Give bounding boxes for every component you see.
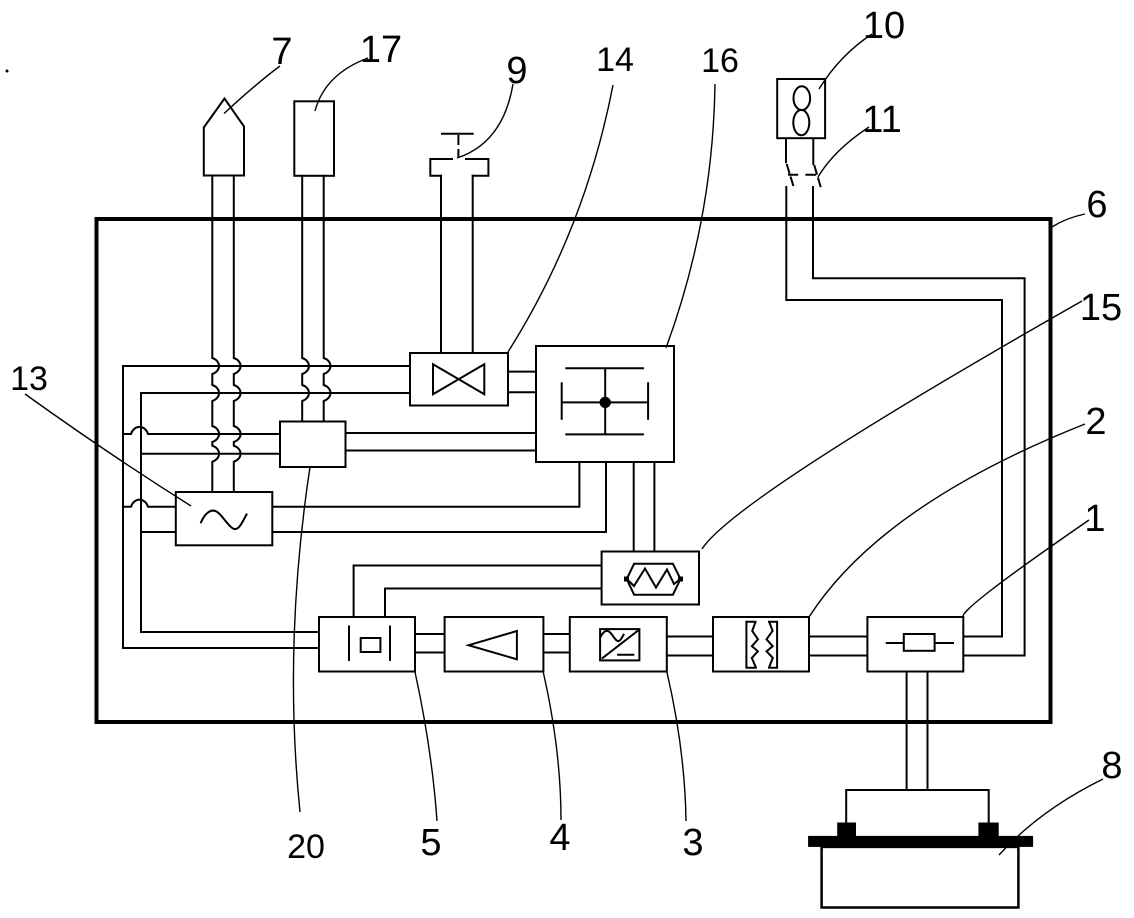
unit 16 cross symbol — [562, 368, 648, 434]
svg-text:16: 16 — [701, 42, 739, 80]
wire fan 10 right branch to block 1 — [813, 187, 1025, 656]
block 3 box — [570, 617, 667, 672]
pipe 9 left wall — [440, 176, 442, 353]
wire valve 14 to block 16 lower — [508, 391, 536, 393]
connector 2-1 — [809, 637, 867, 656]
fan 10 box — [777, 79, 825, 138]
battery 8 right terminal — [978, 823, 998, 838]
svg-text:1: 1 — [1084, 498, 1105, 540]
leader line 1 — [963, 520, 1089, 617]
pipe 7 right wall with crossover jogs — [234, 176, 241, 493]
wire block 13 to block 16 lower — [272, 462, 606, 532]
leader line 13 — [25, 394, 191, 506]
unit 15 box — [602, 552, 699, 605]
svg-text:3: 3 — [682, 822, 703, 864]
leader line 4 — [543, 671, 561, 820]
wire block 16 to block 15 right — [653, 462, 655, 552]
wire valve 14 to block 16 upper — [508, 371, 536, 373]
unit 15 left terminal dot — [624, 577, 629, 582]
battery 8 left terminal — [837, 823, 856, 837]
svg-text:20: 20 — [287, 828, 325, 866]
battery wire left from block 1 — [906, 672, 908, 791]
svg-text:5: 5 — [420, 822, 441, 864]
pipe 7 left wall with crossover jogs — [212, 176, 219, 493]
block 2 right bracket — [769, 622, 777, 668]
block 4 triangle — [469, 631, 517, 659]
unit 15 zigzag — [627, 569, 681, 588]
svg-text:15: 15 — [1080, 287, 1122, 329]
connector 4-3 — [543, 634, 569, 653]
battery 8 body — [822, 847, 1019, 908]
block 3 diagonal — [603, 631, 638, 658]
unit 15 hexagon — [627, 564, 681, 595]
block 1 box — [867, 617, 963, 672]
wire fan 10 left branch to block 1 — [786, 187, 1002, 637]
svg-text:4: 4 — [549, 817, 570, 859]
wire block 16 to block 15 left — [633, 462, 635, 552]
faucet 9 tee body — [430, 159, 488, 176]
stray dot top-left — [6, 70, 9, 73]
block 3 inner rect — [600, 629, 639, 660]
wire B to block 13 — [141, 531, 176, 533]
wire A to block 20 (hop over bus B) — [123, 427, 280, 434]
block 3 wave — [600, 631, 623, 641]
svg-text:17: 17 — [360, 29, 402, 71]
pipe 17 right wall with crossover jogs — [324, 176, 331, 422]
wire B to block 20 — [141, 453, 280, 455]
block 3 dash — [618, 654, 633, 656]
duct break 11 horizontal dashes — [789, 174, 815, 176]
leader line 20 — [293, 467, 310, 812]
leader line 3 — [667, 672, 686, 822]
svg-text:8: 8 — [1101, 745, 1122, 787]
svg-text:9: 9 — [506, 50, 527, 92]
valve 14 bowtie — [433, 364, 484, 394]
svg-text:14: 14 — [596, 41, 634, 79]
block 2 right zigzag — [767, 622, 773, 667]
pipe 17 left wall with crossover jogs — [302, 176, 309, 422]
block 5 symbol bars and square — [349, 627, 390, 661]
generator 13 box — [176, 492, 272, 545]
pipe 9 right wall — [472, 176, 474, 353]
sensor 7 pencil body — [204, 99, 244, 176]
svg-text:2: 2 — [1085, 401, 1106, 443]
generator 13 sine wave — [201, 511, 247, 529]
svg-text:6: 6 — [1086, 184, 1107, 226]
leader line 9 — [457, 84, 513, 158]
wire block 15 to block 5 upper — [354, 566, 602, 618]
wire block 20 to block 16 lower — [346, 450, 537, 452]
wire block 15 to block 5 lower — [385, 589, 602, 618]
connector 5-4 — [415, 634, 445, 653]
leader line 7 — [224, 66, 280, 114]
faucet 9 handle bar — [442, 133, 473, 135]
wire bus A (left vertical with top run to valve 14 and bottom run to block 5) — [123, 366, 410, 648]
block 4 box — [445, 617, 544, 672]
leader line 11 — [818, 127, 869, 177]
leader line 8 — [999, 779, 1103, 855]
block 2 left zigzag — [752, 622, 758, 667]
battery top header wire — [846, 790, 989, 823]
svg-text:11: 11 — [862, 99, 901, 141]
unit 15 right terminal dot — [678, 577, 683, 582]
battery wire right from block 1 — [927, 672, 929, 791]
svg-text:13: 13 — [10, 360, 48, 398]
svg-text:10: 10 — [863, 5, 905, 47]
svg-text:7: 7 — [271, 31, 292, 73]
block 2 left bracket — [746, 622, 755, 668]
wire block 13 to block 16 upper — [272, 462, 579, 507]
duct break 11 diagonal dashes — [787, 165, 821, 188]
leader line 14 — [508, 85, 613, 352]
fan 10 rotor lobes — [794, 86, 811, 110]
unit 16 box — [536, 346, 674, 462]
unit 16 center dot — [600, 397, 611, 408]
wire A to block 13 (hop over bus B) — [123, 500, 176, 507]
battery 8 top plate — [808, 836, 1033, 847]
block 2 box — [713, 617, 809, 672]
leader line 17 — [315, 58, 368, 111]
gauge 17 body — [294, 101, 334, 176]
valve 14 box — [410, 353, 508, 406]
leader line 10 — [819, 34, 872, 89]
leader line 16 — [666, 84, 715, 348]
leader line 2 — [809, 424, 1085, 617]
leader line 5 — [415, 672, 437, 821]
block 5 box — [319, 617, 415, 672]
faucet 9 dashed stem — [457, 136, 459, 157]
wire block 20 to block 16 upper — [346, 432, 537, 434]
unit 20 box — [280, 422, 346, 468]
leader line 6 — [1052, 214, 1085, 227]
enclosure box 6 — [97, 219, 1051, 722]
wire bus B (inner left vertical with top run to valve 14 and bottom run to block 5) — [141, 393, 410, 632]
connector 3-2 — [667, 637, 713, 656]
duct from fan 10 upper solid segments — [786, 139, 813, 164]
block 1 fuse rect — [904, 634, 935, 651]
leader line 15 — [702, 301, 1082, 549]
block 1 fuse line — [887, 642, 953, 644]
